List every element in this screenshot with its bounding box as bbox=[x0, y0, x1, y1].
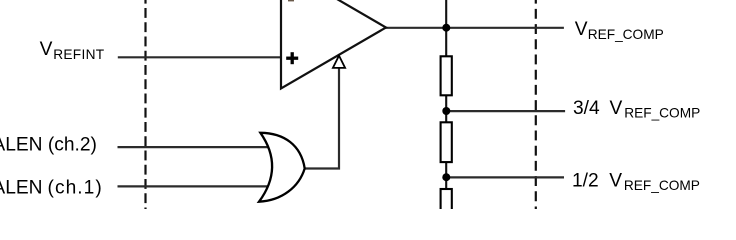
svg-text:REF_COMP: REF_COMP bbox=[624, 106, 700, 121]
junction node 3/4 tap bbox=[442, 107, 450, 115]
wire VREFINT to op-amp + input bbox=[118, 56, 282, 58]
junction node 1/2 tap bbox=[442, 173, 450, 181]
resistor R1 bbox=[441, 56, 452, 95]
svg-text:V: V bbox=[610, 98, 623, 119]
wire 1/2 tap bbox=[446, 176, 564, 178]
svg-text:ALEN (ch.2): ALEN (ch.2) bbox=[0, 134, 97, 155]
wire 3/4 tap bbox=[446, 110, 565, 112]
wire ALEN ch.1 to OR gate input bbox=[118, 185, 273, 187]
resistor R2 bbox=[441, 122, 452, 162]
dashed boundary right bbox=[535, 0, 537, 209]
svg-text:3/4: 3/4 bbox=[573, 98, 600, 119]
svg-text:REF_COMP: REF_COMP bbox=[588, 27, 664, 42]
svg-text:V: V bbox=[609, 171, 622, 192]
OR gate bbox=[259, 133, 305, 202]
wire vertical resistor bus bbox=[445, 0, 447, 209]
wire op-amp output to VREF_COMP bbox=[385, 27, 564, 29]
op-amp minus input label (clipped at top) bbox=[288, 0, 294, 1]
svg-text:V: V bbox=[575, 19, 588, 40]
svg-text:(ch.1): (ch.1) bbox=[48, 178, 103, 199]
svg-text:ALEN: ALEN bbox=[0, 178, 43, 199]
op-amp U1 bbox=[281, 0, 386, 89]
wire OR gate output to arrow bbox=[304, 66, 339, 169]
wire ALEN ch.2 to OR gate input bbox=[118, 146, 273, 148]
svg-text:REFINT: REFINT bbox=[53, 47, 105, 62]
svg-text:REF_COMP: REF_COMP bbox=[624, 178, 700, 193]
resistor R3 (clipped at bottom) bbox=[441, 189, 452, 229]
dashed boundary left bbox=[144, 0, 146, 209]
arrow into op-amp bottom bbox=[333, 56, 345, 68]
junction node VREF_COMP bbox=[442, 24, 450, 32]
svg-text:1/2: 1/2 bbox=[572, 171, 599, 192]
svg-text:V: V bbox=[40, 39, 53, 60]
op-amp plus input label bbox=[286, 52, 298, 64]
